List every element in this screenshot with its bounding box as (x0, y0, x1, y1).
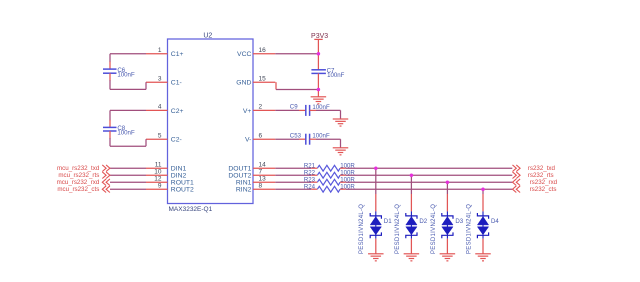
svg-text:rs232_cts: rs232_cts (530, 186, 557, 193)
svg-text:100nF: 100nF (312, 104, 330, 111)
svg-text:9: 9 (158, 182, 162, 189)
svg-text:DIN1: DIN1 (171, 166, 187, 173)
svg-text:100nF: 100nF (327, 72, 345, 79)
svg-text:12: 12 (154, 175, 162, 182)
svg-text:RIN1: RIN1 (236, 180, 252, 187)
svg-text:rs232_txd: rs232_txd (528, 165, 556, 172)
svg-text:rs232_rxd: rs232_rxd (530, 179, 558, 186)
svg-text:R21: R21 (304, 163, 316, 170)
svg-text:10: 10 (154, 168, 162, 175)
svg-text:100nF: 100nF (117, 72, 135, 79)
svg-text:C2-: C2- (171, 137, 182, 144)
svg-text:D4: D4 (491, 218, 499, 225)
svg-text:100R: 100R (340, 177, 355, 184)
svg-text:R24: R24 (304, 184, 316, 191)
svg-text:11: 11 (155, 161, 162, 168)
svg-text:4: 4 (158, 104, 162, 111)
svg-text:3: 3 (158, 75, 162, 82)
svg-text:14: 14 (259, 161, 267, 168)
svg-text:16: 16 (259, 47, 267, 54)
svg-text:U2: U2 (203, 33, 212, 40)
svg-text:C2+: C2+ (171, 108, 184, 115)
svg-text:MAX3232E-Q1: MAX3232E-Q1 (169, 206, 213, 213)
svg-text:mcu_rs232_txd: mcu_rs232_txd (57, 165, 100, 172)
svg-text:R22: R22 (304, 170, 316, 177)
svg-text:ROUT2: ROUT2 (171, 187, 194, 194)
svg-text:7: 7 (259, 168, 263, 175)
svg-text:VCC: VCC (237, 51, 251, 58)
svg-text:mcu_rs232_cts: mcu_rs232_cts (57, 186, 99, 193)
svg-text:mcu_rs232_rxd: mcu_rs232_rxd (57, 179, 100, 186)
svg-text:C1+: C1+ (171, 51, 184, 58)
svg-text:rs232_rts: rs232_rts (528, 172, 554, 179)
svg-text:100R: 100R (340, 170, 355, 177)
svg-text:100R: 100R (340, 184, 355, 191)
svg-text:D2: D2 (419, 218, 427, 225)
svg-text:mcu_rs232_rts: mcu_rs232_rts (58, 172, 99, 179)
svg-text:C9: C9 (290, 104, 298, 111)
svg-text:R23: R23 (304, 177, 316, 184)
svg-text:C1-: C1- (171, 80, 182, 87)
svg-text:PESD1IVN24L-Q: PESD1IVN24L-Q (431, 204, 437, 254)
svg-text:100R: 100R (340, 163, 355, 170)
svg-text:V+: V+ (243, 108, 252, 115)
svg-text:D1: D1 (384, 218, 392, 225)
svg-text:15: 15 (259, 75, 267, 82)
svg-text:PESD1IVN24L-Q: PESD1IVN24L-Q (359, 204, 365, 254)
svg-text:C53: C53 (290, 132, 302, 139)
svg-text:DIN2: DIN2 (171, 173, 187, 180)
svg-text:ROUT1: ROUT1 (171, 180, 194, 187)
svg-text:PESD1IVN24L-Q: PESD1IVN24L-Q (466, 204, 472, 254)
svg-text:V-: V- (245, 137, 251, 144)
svg-text:1: 1 (158, 47, 162, 54)
svg-text:100nF: 100nF (117, 130, 135, 137)
svg-text:100nF: 100nF (312, 133, 330, 140)
svg-text:13: 13 (259, 175, 267, 182)
svg-text:6: 6 (259, 132, 263, 139)
svg-text:2: 2 (259, 104, 263, 111)
svg-text:8: 8 (259, 182, 263, 189)
svg-text:PESD1IVN24L-Q: PESD1IVN24L-Q (395, 204, 401, 254)
svg-text:GND: GND (236, 80, 251, 87)
svg-text:5: 5 (158, 132, 162, 139)
svg-text:D3: D3 (455, 218, 463, 225)
svg-text:RIN2: RIN2 (236, 187, 252, 194)
svg-text:DOUT1: DOUT1 (228, 166, 251, 173)
svg-text:DOUT2: DOUT2 (228, 173, 251, 180)
